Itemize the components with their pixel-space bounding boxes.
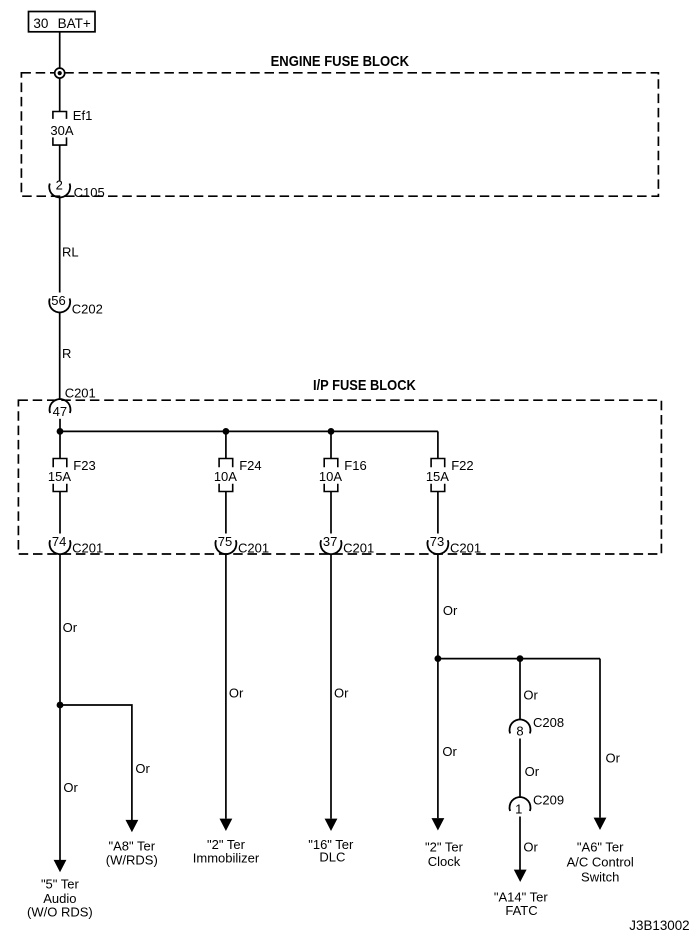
wire Or from junction to A6 arrow — [599, 659, 601, 818]
svg-text:(W/RDS): (W/RDS) — [106, 852, 158, 867]
terminal arrow "2" Ter Immobilizer — [220, 819, 233, 831]
svg-text:56: 56 — [51, 293, 65, 308]
svg-text:Or: Or — [443, 603, 458, 618]
connector C201 pin 75 — [215, 534, 269, 555]
bus wire inside I/P fuse block — [60, 430, 438, 432]
svg-text:BAT+: BAT+ — [58, 16, 91, 31]
wire from clock junction to A6 branch — [438, 658, 600, 660]
svg-text:Ef1: Ef1 — [73, 108, 93, 123]
svg-text:Immobilizer: Immobilizer — [193, 850, 260, 865]
engine fuse block boundary — [21, 73, 658, 196]
svg-text:15A: 15A — [48, 469, 71, 484]
wire Or from junction to clock arrow — [437, 659, 439, 819]
svg-text:"A8" Ter: "A8" Ter — [109, 838, 156, 853]
wire Or from C208 to C209 — [519, 739, 521, 798]
svg-text:47: 47 — [53, 404, 67, 419]
grommet terminal into engine fuse block — [55, 68, 65, 78]
connector C105 pin 2 — [49, 177, 104, 200]
fuse F16 10A — [319, 458, 367, 491]
svg-text:Or: Or — [229, 686, 244, 701]
connector C201 pin 47 — [50, 385, 96, 418]
svg-text:C201: C201 — [65, 385, 96, 400]
svg-text:Or: Or — [442, 744, 457, 759]
wire from BAT+ box to grommet — [59, 32, 61, 68]
svg-text:FATC: FATC — [505, 903, 537, 918]
svg-text:1: 1 — [515, 801, 522, 816]
svg-text:2: 2 — [56, 177, 63, 192]
svg-text:15A: 15A — [426, 469, 449, 484]
svg-text:Or: Or — [523, 688, 538, 703]
wire from fuse F24 to connector C201 pin 75 — [225, 492, 227, 534]
svg-text:10A: 10A — [319, 469, 342, 484]
svg-text:(W/O RDS): (W/O RDS) — [27, 905, 93, 920]
svg-text:C209: C209 — [533, 793, 564, 808]
fuse F22 15A — [426, 458, 474, 491]
svg-text:Or: Or — [135, 761, 150, 776]
connector C202 pin 56 — [49, 293, 103, 316]
wire Or from C209 to FATC arrow — [519, 817, 521, 871]
svg-text:Or: Or — [523, 839, 538, 854]
terminal arrow "A6" Ter A/C Control Switch — [594, 818, 607, 830]
svg-text:8: 8 — [516, 723, 523, 738]
svg-text:Clock: Clock — [428, 854, 461, 869]
wire branch to A8 terminal — [60, 705, 132, 820]
fuse Ef1 30A — [50, 108, 92, 145]
svg-text:Switch: Switch — [581, 869, 619, 884]
connector C201 pin 73 — [427, 534, 481, 555]
svg-text:"A6" Ter: "A6" Ter — [577, 840, 624, 855]
svg-text:C201: C201 — [72, 540, 103, 555]
wire Or from connector 74 to audio arrow — [59, 554, 61, 860]
battery feed box 30 BAT+ — [29, 12, 96, 32]
svg-text:30A: 30A — [50, 123, 73, 138]
svg-text:F24: F24 — [239, 458, 261, 473]
junction at F23 branch — [57, 428, 64, 435]
svg-text:A/C Control: A/C Control — [567, 854, 634, 869]
wire from fuse F22 to connector C201 pin 73 — [437, 492, 439, 534]
svg-text:ENGINE FUSE BLOCK: ENGINE FUSE BLOCK — [271, 54, 410, 70]
svg-text:DLC: DLC — [319, 850, 345, 865]
junction at clock wire — [435, 655, 442, 662]
junction to A8 branch — [57, 702, 64, 709]
svg-text:R: R — [62, 346, 71, 361]
connector C201 pin 74 — [50, 534, 104, 555]
svg-text:"5" Ter: "5" Ter — [41, 877, 80, 892]
wire Or from connector 73 to clock junction — [437, 554, 439, 658]
terminal arrow "2" Ter Clock — [432, 818, 445, 830]
wire from bus to fuse F24 — [225, 431, 227, 458]
terminal arrow "16" Ter DLC — [325, 819, 338, 831]
svg-text:Or: Or — [63, 620, 78, 635]
svg-text:Or: Or — [63, 780, 78, 795]
wire from grommet to fuse Ef1 — [59, 78, 61, 111]
svg-text:"2" Ter: "2" Ter — [425, 839, 464, 854]
wire Or from junction to connector C208 — [519, 659, 521, 720]
wire from bus to fuse F16 — [330, 431, 332, 458]
svg-text:Or: Or — [334, 686, 349, 701]
svg-text:74: 74 — [52, 534, 66, 549]
svg-text:C201: C201 — [238, 540, 269, 555]
terminal arrow "A14" Ter FATC — [514, 870, 527, 882]
wire RL from C105 to C202 — [59, 198, 61, 293]
terminal arrow "A8" Ter (W/RDS) — [126, 820, 139, 832]
junction at F24 branch — [223, 428, 230, 435]
fuse F23 15A — [48, 458, 96, 491]
svg-text:30: 30 — [33, 16, 48, 31]
svg-text:J3B13002: J3B13002 — [629, 918, 689, 933]
wire from fuse F16 to connector C201 pin 37 — [330, 492, 332, 534]
wire Or from connector 75 to immobilizer arrow — [225, 554, 227, 818]
svg-text:I/P FUSE BLOCK: I/P FUSE BLOCK — [313, 378, 416, 394]
wire from fuse Ef1 to connector C105 — [59, 145, 61, 180]
svg-text:C105: C105 — [74, 185, 105, 200]
wire from fuse F23 to connector C201 pin 74 — [59, 492, 61, 534]
connector C201 pin 37 — [321, 534, 375, 555]
connector C208 pin 8 — [510, 715, 565, 738]
wire R from C202 to C201 — [59, 313, 61, 400]
svg-text:F16: F16 — [344, 458, 366, 473]
svg-text:Or: Or — [606, 751, 621, 766]
I/P fuse block boundary — [18, 400, 661, 554]
svg-text:10A: 10A — [214, 469, 237, 484]
junction at FATC branch — [517, 655, 524, 662]
svg-text:C202: C202 — [72, 301, 103, 316]
junction at F16 branch — [328, 428, 335, 435]
svg-text:75: 75 — [218, 534, 232, 549]
svg-text:C201: C201 — [343, 540, 374, 555]
svg-text:RL: RL — [62, 244, 79, 259]
svg-text:C208: C208 — [533, 715, 564, 730]
svg-text:73: 73 — [430, 534, 444, 549]
wire from connector 47 to fuse F23 — [59, 419, 61, 459]
terminal arrow "5" Ter Audio (W/O RDS) — [54, 860, 67, 872]
wire Or from connector 37 to DLC arrow — [330, 554, 332, 818]
svg-text:F22: F22 — [451, 458, 473, 473]
svg-text:F23: F23 — [73, 458, 95, 473]
svg-text:Or: Or — [525, 764, 540, 779]
connector C209 pin 1 — [510, 793, 565, 817]
wire from bus to fuse F22 — [437, 431, 439, 458]
svg-text:37: 37 — [323, 534, 337, 549]
svg-text:C201: C201 — [450, 540, 481, 555]
fuse F24 10A — [214, 458, 262, 491]
